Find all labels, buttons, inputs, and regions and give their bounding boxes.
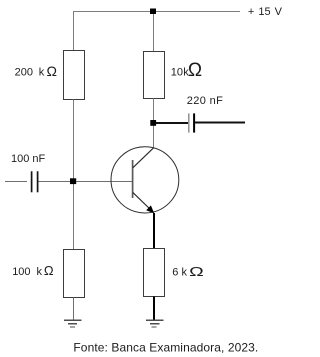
wire: R1 bottom to base node bbox=[73, 100, 75, 250]
wire: collector node to C2 bbox=[156, 122, 188, 124]
wire: C1 to base node bbox=[39, 181, 71, 183]
svg-text:100: 100 bbox=[12, 266, 30, 278]
wire: base node to transistor base bbox=[76, 181, 133, 183]
resistor R3 100k (box) bbox=[64, 250, 85, 298]
wire: emitter to R4 top bbox=[153, 213, 155, 249]
node: base junction dot bbox=[70, 178, 76, 184]
wire: R3 bottom to ground bbox=[73, 298, 75, 321]
svg-text:10: 10 bbox=[171, 67, 183, 79]
resistor R4 6k (box) bbox=[144, 249, 165, 297]
wire: +15V supply rail (top horizontal) bbox=[73, 11, 240, 13]
svg-text:k: k bbox=[39, 67, 45, 79]
transistor Q1 emitter lead (diagonal with arrow) bbox=[133, 192, 153, 211]
svg-text:Ω: Ω bbox=[47, 63, 57, 79]
wire: R2 bottom to collector node bbox=[153, 99, 155, 148]
svg-text:200: 200 bbox=[15, 67, 33, 79]
svg-text:6: 6 bbox=[172, 267, 178, 279]
ground (left) bbox=[64, 320, 82, 327]
transistor Q1 collector lead (diagonal) bbox=[133, 148, 154, 168]
svg-text:k: k bbox=[37, 266, 43, 278]
wire: C2 to output terminal bbox=[195, 122, 245, 124]
svg-text:100 nF: 100 nF bbox=[11, 153, 46, 165]
capacitor C1 100nF (plates) bbox=[31, 171, 33, 192]
transistor Q1 base bar bbox=[132, 160, 134, 198]
wire: R4 bottom to ground bbox=[153, 297, 155, 321]
resistor R1 200k (box) bbox=[64, 51, 85, 100]
svg-text:Ω: Ω bbox=[189, 264, 204, 279]
svg-text:k: k bbox=[182, 267, 188, 279]
ground (right) bbox=[146, 320, 164, 327]
svg-text:220 nF: 220 nF bbox=[187, 95, 223, 107]
node: junction dot on supply rail bbox=[150, 9, 156, 15]
wire: right branch vertical from rail to R2 top bbox=[153, 11, 155, 52]
node: collector junction dot bbox=[150, 120, 156, 126]
capacitor C2 220nF (plates) bbox=[188, 113, 190, 132]
transistor Q1 (circle) bbox=[111, 147, 179, 213]
svg-text:Ω: Ω bbox=[44, 263, 54, 278]
wire: input terminal to C1 bbox=[5, 181, 27, 183]
svg-text:Ω: Ω bbox=[188, 60, 202, 81]
svg-text:+ 15 V: + 15 V bbox=[248, 6, 283, 18]
wire: left branch vertical from rail to R1 top bbox=[73, 11, 75, 51]
resistor R2 10k (box) bbox=[144, 52, 165, 99]
svg-text:Fonte: Banca Examinadora, 2023: Fonte: Banca Examinadora, 2023. bbox=[73, 340, 258, 354]
